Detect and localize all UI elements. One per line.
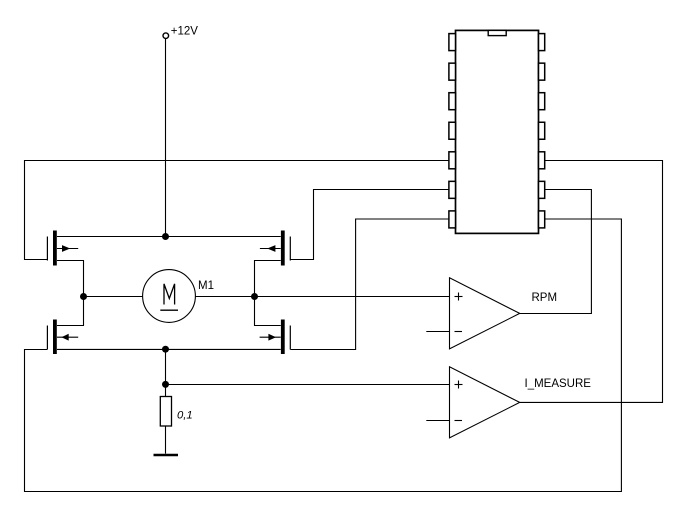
svg-text:M1: M1 xyxy=(198,280,214,292)
svg-text:RPM: RPM xyxy=(532,292,558,304)
svg-text:I_MEASURE: I_MEASURE xyxy=(525,378,592,390)
svg-text:+12V: +12V xyxy=(171,25,199,37)
svg-text:0,1: 0,1 xyxy=(177,410,193,422)
